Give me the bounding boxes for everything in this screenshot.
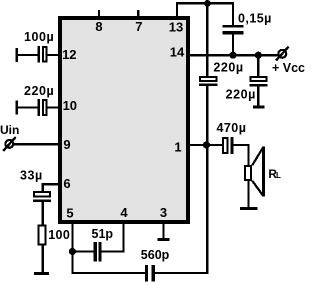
ground under speaker: [240, 207, 258, 210]
speaker RL: [245, 147, 265, 197]
wire right 220u bottom lead: [257, 87, 259, 106]
wire 100u to pin 12: [48, 54, 61, 56]
wire Uin to pin 9: [13, 143, 60, 145]
pin 7 stub: [137, 10, 139, 17]
terminal stub pin 10 input: [15, 101, 17, 115]
node junction 220u / pin14 wire: [255, 52, 262, 59]
svg-text:560p: 560p: [141, 248, 170, 262]
wire pin 4 down: [123, 222, 125, 253]
svg-text:+ Vcc: + Vcc: [272, 61, 305, 75]
svg-text:33µ: 33µ: [20, 169, 43, 183]
svg-text:0,15µ: 0,15µ: [238, 11, 272, 25]
wire bootstrap cap to pin1 node and down: [206, 86, 208, 274]
wire speaker to ground: [247, 181, 249, 207]
wire 51p to pin4 riser: [102, 250, 125, 252]
svg-text:51p: 51p: [92, 227, 114, 241]
svg-text:14: 14: [170, 45, 185, 60]
svg-text:9: 9: [63, 137, 70, 152]
wire pin 14 to Vcc: [188, 54, 278, 56]
wire pin 6 horizontal: [42, 183, 60, 185]
svg-text:470µ: 470µ: [217, 121, 247, 135]
capacitor C 560p: [145, 265, 155, 282]
capacitor C 470u: [223, 137, 234, 154]
terminal stub pin 12 input: [15, 48, 17, 62]
wire terminal to 220u: [15, 106, 37, 108]
svg-text:220µ: 220µ: [226, 88, 256, 102]
wire resistor to ground: [42, 246, 44, 272]
node junction pin5: [69, 248, 76, 255]
IC U1 body: [60, 18, 188, 222]
svg-text:3: 3: [160, 205, 167, 220]
wire 0,15u bottom lead: [232, 35, 234, 56]
capacitor C 100u: [38, 46, 47, 63]
wire right 220u top lead: [257, 55, 259, 76]
pin 8 stub: [98, 10, 100, 17]
terminal + Vcc: [276, 47, 289, 61]
wire pin 5 down: [71, 222, 73, 274]
svg-text:5: 5: [66, 206, 73, 221]
ground under resistor: [34, 272, 49, 275]
svg-text:1: 1: [174, 139, 181, 154]
svg-text:L: L: [276, 171, 281, 180]
capacitor C 51p: [94, 242, 102, 261]
wire pin 1 to 470u: [188, 144, 222, 146]
node junction pin1: [203, 141, 210, 148]
wire pin13 riser: [176, 2, 178, 17]
wire pin 6 down to 33u: [42, 183, 44, 191]
svg-text:10: 10: [63, 98, 77, 113]
node junction top wire: [204, 0, 211, 7]
wire down to speaker: [247, 144, 249, 166]
svg-text:8: 8: [95, 19, 102, 34]
svg-text:220µ: 220µ: [213, 60, 243, 74]
wire 470u to speaker: [233, 144, 249, 146]
wire 33u to resistor: [42, 202, 44, 225]
capacitor C 0,15u: [222, 25, 243, 35]
svg-text:100µ: 100µ: [24, 30, 54, 44]
svg-text:6: 6: [63, 176, 70, 191]
resistor R 100: [39, 225, 46, 244]
capacitor C 33u: [33, 192, 51, 202]
capacitor C 220u decoupling: [249, 77, 267, 87]
svg-text:4: 4: [120, 205, 128, 220]
svg-text:12: 12: [62, 47, 76, 62]
wire 0,15u top lead: [232, 3, 234, 25]
terminal Uin: [3, 137, 16, 151]
wire top horizontal (pin13 net): [176, 2, 234, 4]
wire bottom right segment: [155, 272, 209, 274]
wire terminal to 100u: [15, 54, 37, 56]
svg-text:Uin: Uin: [0, 123, 19, 137]
node junction 0,15u / pin14 wire: [229, 52, 236, 59]
wire pin 3 down: [162, 222, 164, 238]
capacitor C 220u bootstrap: [199, 77, 218, 86]
wire junction to 51p: [73, 250, 94, 252]
svg-text:13: 13: [169, 20, 183, 35]
svg-text:220µ: 220µ: [24, 84, 54, 98]
wire 220u to pin 10: [48, 106, 61, 108]
svg-text:7: 7: [135, 19, 142, 34]
capacitor C 220u input: [38, 99, 47, 116]
ground under right 220u: [253, 106, 265, 109]
wire from top junction down to C bootstrap: [206, 3, 208, 76]
ground under pin 3: [158, 238, 170, 241]
wire bottom left segment: [71, 272, 145, 274]
svg-text:100: 100: [48, 228, 70, 242]
